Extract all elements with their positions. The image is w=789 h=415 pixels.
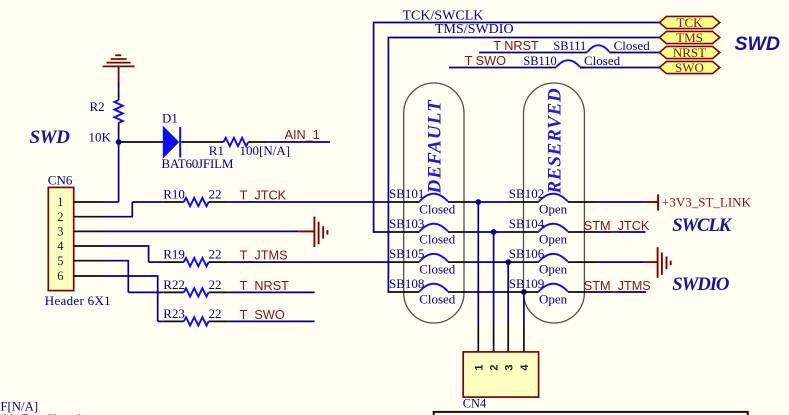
solder bridge SB103 arc bbox=[420, 224, 448, 232]
wire T_NRST row left bbox=[128, 291, 164, 293]
resistor R1 zigzag bbox=[224, 138, 249, 146]
svg-text:2: 2 bbox=[57, 210, 63, 224]
svg-text:T_NRST: T_NRST bbox=[240, 279, 290, 293]
solder bridge SB108 pins bbox=[390, 291, 420, 293]
wire T_NRST row right bbox=[229, 291, 315, 293]
wire CN6.5 down to R22 row bbox=[104, 261, 128, 293]
wire row3 to ground bbox=[597, 261, 644, 263]
svg-text:22: 22 bbox=[209, 187, 222, 202]
svg-text:SB111: SB111 bbox=[553, 39, 586, 53]
solder bridge SB103 pins bbox=[390, 231, 420, 233]
wire R2 to junction bbox=[118, 131, 120, 143]
svg-text:R22: R22 bbox=[163, 277, 185, 292]
svg-text:SWD: SWD bbox=[30, 127, 71, 148]
svg-text:Closed: Closed bbox=[419, 261, 456, 276]
CN4 pin stub x=508.2 bbox=[507, 322, 509, 352]
svg-text:5: 5 bbox=[57, 254, 63, 268]
wire row2 STM_JTCK bbox=[597, 231, 646, 233]
CN6 pin 1 stub bbox=[74, 201, 104, 203]
svg-text:T_JTCK: T_JTCK bbox=[240, 188, 287, 202]
sheet border rectangle (bottom) bbox=[434, 412, 748, 415]
svg-text:STM_JTCK: STM_JTCK bbox=[584, 219, 650, 233]
wire junction down to CN4 bbox=[507, 262, 509, 322]
solder bridge SB109 arc bbox=[539, 284, 568, 292]
svg-text:4: 4 bbox=[519, 364, 531, 371]
junction R2 / CN6.1 / D1 bbox=[116, 139, 122, 145]
wire between stadiums row SB108/SB109 bbox=[466, 291, 509, 293]
svg-text:3: 3 bbox=[504, 364, 516, 370]
wire T_JTCK row left bbox=[132, 201, 164, 203]
wire CN6.3 to ground bbox=[104, 230, 299, 232]
resistor R10 pins bbox=[164, 201, 184, 203]
CN6 pin 3 stub bbox=[74, 230, 104, 232]
svg-text:SWD: SWD bbox=[735, 33, 781, 55]
wire AIN_1 bbox=[268, 141, 330, 143]
svg-text:SB101: SB101 bbox=[389, 186, 424, 201]
svg-text:SB102: SB102 bbox=[509, 186, 544, 201]
svg-text:SB103: SB103 bbox=[389, 216, 424, 231]
svg-text:T_JTMS: T_JTMS bbox=[240, 249, 288, 263]
svg-text:NRST: NRST bbox=[673, 45, 706, 60]
wire between stadiums row SB105/SB106 bbox=[466, 261, 509, 263]
power bar symbol (top of R2) bbox=[115, 54, 121, 56]
svg-text:DEFAULT: DEFAULT bbox=[425, 99, 446, 195]
svg-text:Open: Open bbox=[539, 201, 568, 216]
wire between stadiums row SB101/SB102 bbox=[466, 201, 509, 203]
connector CN6 body bbox=[48, 187, 73, 290]
svg-text:Closed: Closed bbox=[419, 201, 456, 216]
svg-text:T SWO: T SWO bbox=[465, 54, 506, 68]
solder bridge SB104 pins bbox=[509, 231, 539, 233]
pin stubs of SB111 bbox=[581, 52, 587, 54]
svg-text:T NRST: T NRST bbox=[493, 39, 539, 53]
svg-text:Closed: Closed bbox=[45, 411, 82, 415]
diode D1 symbol bbox=[163, 127, 178, 158]
svg-text:SWDIO: SWDIO bbox=[672, 274, 730, 295]
junction node row SB103/SB104 bbox=[491, 229, 497, 235]
solder bridge SB101 pins bbox=[390, 201, 420, 203]
wire junction down to CN6 pin 1 bbox=[118, 142, 120, 202]
resistor R10 zigzag bbox=[184, 198, 209, 206]
svg-text:R19: R19 bbox=[163, 247, 185, 262]
ground symbol (CN6.3) bbox=[299, 230, 315, 232]
port SWO bbox=[659, 61, 719, 73]
svg-text:1: 1 bbox=[473, 364, 485, 370]
svg-text:SB108: SB108 bbox=[389, 276, 424, 291]
svg-text:2: 2 bbox=[489, 364, 501, 370]
solder bridge SB101 arc bbox=[420, 194, 448, 202]
wire CN6.4 down to R19 row bbox=[104, 246, 149, 262]
svg-text:4: 4 bbox=[57, 239, 64, 253]
svg-text:Closed: Closed bbox=[614, 38, 651, 53]
solder bridge SB108 arc bbox=[420, 284, 448, 292]
svg-text:TMS: TMS bbox=[676, 30, 703, 45]
svg-text:R2: R2 bbox=[90, 99, 105, 114]
svg-text:1: 1 bbox=[57, 195, 63, 209]
svg-text:D1: D1 bbox=[162, 110, 178, 125]
pin stubs of SB110 bbox=[550, 67, 556, 69]
svg-text:Open: Open bbox=[539, 291, 568, 306]
solder bridge SB111 arc bbox=[587, 45, 609, 52]
svg-text:Header 6X1: Header 6X1 bbox=[45, 293, 111, 308]
wire row4 STM_JTMS bbox=[597, 291, 646, 293]
svg-text:SWO: SWO bbox=[675, 60, 704, 75]
power port +3V3_ST_LINK (bar) bbox=[645, 201, 658, 203]
wire D1 cathode to R1 bbox=[181, 141, 223, 143]
svg-text:CN6: CN6 bbox=[48, 173, 73, 188]
svg-text:6: 6 bbox=[57, 269, 63, 283]
solder bridge SB102 pins bbox=[509, 201, 539, 203]
solder bridge SB106 arc bbox=[539, 254, 568, 262]
resistor R22 zigzag bbox=[184, 288, 209, 296]
svg-text:SB105: SB105 bbox=[389, 246, 424, 261]
group outline DEFAULT stadium bbox=[404, 83, 464, 323]
junction node row SB108/SB109 bbox=[521, 289, 527, 295]
group outline RESERVED stadium bbox=[524, 83, 585, 323]
svg-text:BAT60JFILM: BAT60JFILM bbox=[162, 156, 234, 171]
wire junction down to CN4 bbox=[493, 232, 495, 322]
svg-text:R1: R1 bbox=[209, 143, 224, 158]
svg-text:T_SWO: T_SWO bbox=[240, 308, 285, 322]
solder bridge SB105 arc bbox=[420, 254, 448, 262]
resistor R19 pins bbox=[164, 261, 184, 263]
svg-text:AIN_1: AIN_1 bbox=[285, 128, 320, 142]
wire T_JTMS row right bbox=[229, 261, 390, 263]
wire T_SWO row left bbox=[158, 320, 164, 322]
CN6 pin 6 stub bbox=[74, 275, 104, 277]
svg-text:STM_JTMS: STM_JTMS bbox=[584, 279, 651, 293]
port NRST bbox=[659, 46, 719, 58]
wire between stadiums row SB103/SB104 bbox=[466, 231, 509, 233]
solder bridge SB102 arc bbox=[539, 194, 568, 202]
svg-text:Closed: Closed bbox=[419, 231, 456, 246]
solder bridge SB110 arc bbox=[556, 60, 580, 67]
resistor R2 (pins) bbox=[118, 92, 120, 100]
wire junction down to CN4 bbox=[523, 292, 525, 322]
connector CN4 body bbox=[463, 352, 538, 397]
resistor R23 zigzag bbox=[184, 317, 209, 325]
svg-text:SB106: SB106 bbox=[509, 246, 545, 261]
wire CN6.2 up to R10 row bbox=[104, 202, 132, 217]
solder bridge SB106 pins bbox=[509, 261, 539, 263]
svg-text:SB110: SB110 bbox=[523, 54, 556, 68]
junction node row SB101/SB102 bbox=[475, 199, 481, 205]
svg-text:Closed: Closed bbox=[584, 53, 621, 68]
wire TCK/SWCLK net (horizontal + vertical down to SB103 row) bbox=[374, 23, 660, 233]
svg-text:R10: R10 bbox=[163, 187, 185, 202]
port TMS bbox=[659, 31, 719, 43]
svg-text:22: 22 bbox=[209, 306, 222, 321]
svg-text:CN4: CN4 bbox=[463, 397, 486, 411]
resistor R22 pins bbox=[164, 291, 184, 293]
svg-text:100[N/A]: 100[N/A] bbox=[240, 143, 291, 158]
svg-text:22: 22 bbox=[209, 277, 222, 292]
resistor R19 zigzag bbox=[184, 258, 209, 266]
ground symbol (row3) bbox=[644, 261, 658, 263]
svg-text:R23: R23 bbox=[163, 306, 185, 321]
CN6 pin 2 stub bbox=[74, 216, 104, 218]
resistor R2 zigzag bbox=[114, 100, 122, 123]
wire junction to D1 anode bbox=[119, 141, 164, 143]
CN4 pin stub x=478.3 bbox=[477, 322, 479, 352]
svg-text:TMS/SWDIO: TMS/SWDIO bbox=[435, 22, 514, 37]
wire TMS/SWDIO net (horizontal + vertical down to SB108 row) bbox=[388, 38, 659, 293]
wire row1 to +3V3_ST_LINK bbox=[597, 201, 645, 203]
resistor R1 pin right bbox=[248, 141, 268, 143]
port TCK bbox=[659, 16, 719, 28]
wire junction down to CN4 bbox=[477, 202, 479, 322]
svg-text:Open: Open bbox=[539, 231, 568, 246]
wire CN6.1 to junction column bbox=[104, 201, 119, 203]
CN4 pin stub x=523.9 bbox=[523, 322, 525, 352]
svg-text:+3V3_ST_LINK: +3V3_ST_LINK bbox=[662, 195, 752, 210]
svg-text:22: 22 bbox=[209, 247, 222, 262]
resistor R23 pins bbox=[164, 320, 184, 322]
svg-text:10K: 10K bbox=[89, 130, 112, 145]
junction node row SB105/SB106 bbox=[505, 259, 511, 265]
svg-text:TCK: TCK bbox=[677, 15, 704, 30]
wire CN6.6 down to R23 row bbox=[104, 276, 158, 321]
svg-text:SB104: SB104 bbox=[509, 216, 545, 231]
svg-text:SB109: SB109 bbox=[509, 276, 544, 291]
svg-text:RESERVED: RESERVED bbox=[545, 88, 566, 195]
wire T_SWO to SWO port bbox=[449, 67, 550, 69]
svg-text:Open: Open bbox=[539, 261, 568, 276]
CN6 pin 5 stub bbox=[74, 260, 104, 262]
svg-text:Closed: Closed bbox=[419, 291, 456, 306]
CN4 pin stub x=493.6 bbox=[493, 322, 495, 352]
solder bridge SB109 pins bbox=[509, 291, 539, 293]
wire T_SWO row right bbox=[229, 320, 315, 322]
wire power to R2 bbox=[118, 82, 120, 92]
wire T_NRST to NRST port bbox=[479, 52, 581, 54]
wire T_JTMS row left bbox=[149, 261, 164, 263]
solder bridge SB105 pins bbox=[390, 261, 420, 263]
CN6 pin 4 stub bbox=[74, 245, 104, 247]
solder bridge SB104 arc bbox=[539, 224, 568, 232]
svg-text:SWCLK: SWCLK bbox=[672, 215, 732, 236]
svg-text:3: 3 bbox=[57, 225, 63, 239]
svg-text:100nF: 100nF bbox=[0, 411, 29, 415]
wire T_JTCK row right bbox=[229, 201, 390, 203]
